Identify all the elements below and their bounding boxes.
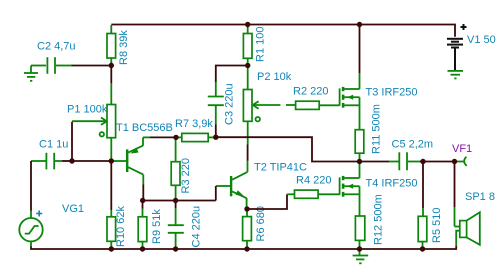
svg-text:R2 220: R2 220 bbox=[293, 86, 328, 98]
capacitor C3 220u bbox=[208, 82, 236, 125]
svg-text:VF1: VF1 bbox=[452, 143, 472, 155]
resistor R4 220 bbox=[287, 175, 340, 199]
wire speaker to bottom rail bbox=[455, 246, 457, 250]
resistor R10 62k bbox=[107, 206, 127, 249]
svg-text:P2 10k: P2 10k bbox=[257, 71, 292, 83]
wire T3 drain to rail bbox=[359, 25, 361, 74]
resistor R5 510 bbox=[418, 208, 443, 249]
probe VF1 bbox=[452, 143, 472, 166]
resistor R6 680 bbox=[243, 206, 267, 249]
node D (R7/C3) bbox=[213, 135, 218, 140]
transistor T2 TIP41C bbox=[216, 161, 307, 210]
svg-text:V1 50: V1 50 bbox=[467, 34, 496, 46]
wire node D to output step bbox=[216, 137, 360, 161]
generator VG1 bbox=[19, 203, 84, 247]
node T2 emitter/R6 bbox=[244, 206, 249, 211]
svg-text:R11 500m: R11 500m bbox=[371, 104, 383, 154]
speaker SP1 8 bbox=[455, 191, 495, 246]
wire P2 bottom to T2 collector bbox=[247, 145, 249, 162]
resistor R9 51k bbox=[138, 201, 163, 250]
node wiper/C1 bbox=[69, 158, 74, 163]
ground under R12 bbox=[353, 249, 369, 263]
transistor T4 IRF250 bbox=[340, 164, 418, 216]
node A (C2/R8/P1) bbox=[109, 63, 114, 68]
svg-text:R7 3,9k: R7 3,9k bbox=[175, 118, 213, 130]
node T3 drain top bbox=[357, 22, 362, 27]
capacitor C4 220u bbox=[168, 201, 203, 250]
svg-text:R4 220: R4 220 bbox=[296, 175, 331, 187]
wire P1 wiper down bbox=[71, 122, 73, 161]
resistor R2 220 bbox=[286, 86, 340, 110]
svg-text:R9 51k: R9 51k bbox=[151, 209, 163, 244]
resistor R1 100 bbox=[243, 25, 266, 66]
node R3/C4 bbox=[173, 198, 178, 203]
wire base of T2 bbox=[215, 186, 217, 201]
wire T1 emitter to node B bbox=[150, 136, 176, 138]
potentiometer P2 10k bbox=[243, 66, 291, 145]
wire top supply rail bbox=[111, 25, 455, 37]
svg-text:T3 IRF250: T3 IRF250 bbox=[366, 87, 418, 99]
wire VF1 node down (R5 branch) bbox=[422, 162, 424, 209]
svg-text:R12 500m: R12 500m bbox=[373, 194, 385, 245]
capacitor C1 1u bbox=[31, 139, 68, 170]
node rail C4 bbox=[173, 246, 178, 251]
node rail R6 bbox=[244, 246, 249, 251]
capacitor C2 4,7u bbox=[31, 41, 76, 74]
svg-text:C2 4,7u: C2 4,7u bbox=[37, 41, 76, 53]
svg-text:R5 510: R5 510 bbox=[431, 208, 443, 243]
node output bbox=[357, 159, 362, 164]
transistor T1 BC556B bbox=[114, 122, 173, 185]
potentiometer P1 100k bbox=[67, 83, 116, 159]
node rail R12/ground bbox=[357, 246, 362, 251]
wire VG1 to bottom rail bbox=[31, 247, 111, 250]
ground under V1 bbox=[448, 71, 464, 79]
wire collector node to base wire bbox=[143, 200, 216, 202]
wire C1 to wiper node bbox=[62, 160, 72, 162]
svg-text:T2 TIP41C: T2 TIP41C bbox=[254, 162, 307, 174]
svg-text:C4 220u: C4 220u bbox=[191, 206, 203, 248]
node B (emitter/R7/R3) bbox=[173, 135, 178, 140]
node collector/R9 bbox=[140, 198, 145, 203]
svg-text:P1 100k: P1 100k bbox=[67, 104, 108, 116]
wire C3 to node D bbox=[215, 125, 217, 138]
wire R8 to node A bbox=[110, 63, 112, 66]
node rail R10 bbox=[109, 246, 114, 251]
svg-text:SP1 8: SP1 8 bbox=[465, 191, 495, 203]
node C (R1/C3/P2) bbox=[245, 63, 250, 68]
svg-text:R10 62k: R10 62k bbox=[115, 206, 127, 247]
svg-text:T1 BC556B: T1 BC556B bbox=[116, 122, 173, 134]
capacitor C5 2,2m bbox=[360, 139, 434, 171]
wire T2 emitter to R4 bbox=[247, 194, 287, 209]
svg-text:R6 680: R6 680 bbox=[255, 206, 267, 241]
node rail R9 bbox=[140, 246, 145, 251]
node C5/R5 bbox=[420, 159, 425, 164]
wire wiper node to base node bbox=[72, 160, 111, 162]
svg-text:R8 39k: R8 39k bbox=[118, 30, 130, 65]
resistor R12 500m bbox=[355, 194, 384, 249]
wire C1 left down to VG1 bbox=[30, 161, 32, 211]
wire C2 to node A bbox=[72, 65, 112, 67]
node base T1 bbox=[109, 158, 114, 163]
node VF1/SP1 bbox=[452, 159, 457, 164]
resistor R11 500m bbox=[355, 104, 382, 161]
node R1 top bbox=[245, 22, 250, 27]
wire node A down to P1 bbox=[110, 66, 112, 84]
transistor T3 IRF250 bbox=[340, 73, 418, 130]
wire T1 collector down bbox=[142, 185, 144, 201]
resistor R3 220 bbox=[171, 139, 192, 199]
wire C5 to VF1 node bbox=[420, 161, 455, 163]
svg-text:T4 IRF250: T4 IRF250 bbox=[366, 178, 418, 190]
node dots bbox=[69, 22, 457, 252]
ground at C2 bbox=[24, 66, 38, 81]
svg-text:R3 220: R3 220 bbox=[180, 158, 192, 193]
resistor R8 39k bbox=[107, 25, 130, 65]
wire base node down to R10 bbox=[110, 161, 112, 210]
svg-text:C5 2,2m: C5 2,2m bbox=[392, 139, 434, 151]
svg-text:R1 100: R1 100 bbox=[255, 27, 267, 62]
svg-text:VG1: VG1 bbox=[62, 203, 84, 215]
wire node C to C3 bbox=[216, 66, 248, 83]
battery V1 bbox=[447, 24, 496, 70]
wire bottom rail bbox=[111, 248, 456, 250]
node rail R5 bbox=[420, 246, 425, 251]
svg-text:C3 220u: C3 220u bbox=[224, 83, 236, 125]
resistor R7 3,9k bbox=[175, 118, 214, 142]
svg-text:C1 1u: C1 1u bbox=[39, 139, 68, 151]
wire SP1 node down bbox=[454, 162, 456, 208]
